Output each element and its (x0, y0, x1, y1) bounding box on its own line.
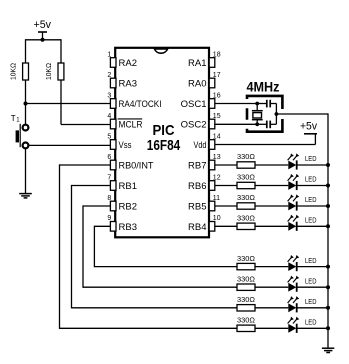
svg-text:330Ω: 330Ω (237, 193, 255, 202)
wire RB3 route to resistor R7 (94, 266, 237, 268)
svg-text:RA1: RA1 (188, 58, 206, 69)
wire node A to pin 3 RA4/TOCKI (26, 103, 111, 105)
junction node +5V rail (41, 38, 45, 42)
wire capacitor common (275, 104, 277, 125)
power +5V supply (right) (300, 121, 317, 145)
wire pin 9 RB3 route (left) (94, 225, 110, 227)
IC U1 PIC16F84 body (115, 48, 209, 238)
resistor R2 10K (pull-up to MCLR) (44, 63, 64, 80)
wire pin 6 RB0 route (left) (60, 164, 111, 166)
switch T1 push button (11, 114, 29, 148)
wire resistor R8 to LED D6 (255, 286, 288, 288)
wire resistor R5 to LED D3 (255, 205, 288, 207)
wire LED D2 cathode to ground bus (298, 185, 329, 187)
wire LED D3 cathode to ground bus (298, 205, 329, 207)
svg-text:17: 17 (213, 72, 221, 79)
svg-text:2: 2 (107, 72, 111, 79)
svg-text:12: 12 (213, 174, 221, 181)
svg-text:9: 9 (107, 215, 111, 222)
svg-text:OSC1: OSC1 (181, 99, 207, 110)
LED D5 (288, 255, 317, 271)
svg-text:LED: LED (305, 278, 317, 285)
svg-text:LED: LED (305, 218, 317, 225)
svg-text:LED: LED (305, 258, 317, 265)
pin 7 RB1 (107, 174, 137, 192)
wire R2 to pin 4 MCLR (vertical) (60, 80, 62, 125)
crystal module case (247, 96, 282, 132)
svg-text:1: 1 (16, 118, 20, 124)
wire pin 11 RB5 to resistor R5 (215, 205, 237, 207)
svg-text:RB4: RB4 (188, 222, 206, 233)
svg-text:LED: LED (305, 156, 317, 163)
pin 17 RA0 (188, 72, 221, 90)
svg-text:LED: LED (305, 177, 317, 184)
resistor R4 330 ohm (237, 173, 255, 189)
capacitor C1 (OSC1 side) (257, 100, 276, 108)
resistor R3 330 ohm (237, 152, 255, 168)
svg-text:4MHz: 4MHz (247, 80, 280, 95)
pin 5 Vss (107, 133, 132, 150)
svg-text:15: 15 (213, 113, 221, 120)
svg-text:330Ω: 330Ω (237, 295, 255, 304)
svg-text:+5v: +5v (300, 121, 317, 133)
svg-text:RA0: RA0 (188, 79, 206, 90)
resistor R8 330 ohm (237, 274, 255, 290)
wire ground bus (right vertical) (327, 113, 329, 348)
capacitor C2 (OSC2 side) (257, 121, 276, 129)
svg-text:RB1: RB1 (119, 181, 137, 192)
svg-text:11: 11 (213, 195, 220, 202)
resistor R6 330 ohm (237, 214, 255, 230)
node ground bus junction row 7 (326, 306, 330, 310)
node ground bus junction row 6 (326, 285, 330, 289)
wire resistor R6 to LED D4 (255, 225, 288, 227)
node ground bus junction row 4 (326, 224, 330, 228)
wire +5V to R2 (60, 39, 62, 63)
pin 12 RB6 (188, 174, 221, 192)
wire +5V to pin 14 Vdd (215, 144, 316, 146)
pin 1 RA2 (107, 51, 137, 69)
svg-text:RB3: RB3 (119, 222, 137, 233)
svg-text:MCLR: MCLR (119, 120, 143, 131)
svg-text:7: 7 (107, 174, 111, 181)
svg-text:10KΩ: 10KΩ (44, 63, 53, 80)
wire pin 15 OSC2 to crystal (215, 123, 257, 125)
pin 8 RB2 (107, 195, 137, 213)
svg-text:+5v: +5v (34, 19, 52, 31)
svg-text:LED: LED (305, 320, 317, 327)
wire RB2 route (down) (82, 205, 84, 287)
svg-text:LED: LED (305, 197, 317, 204)
svg-text:330Ω: 330Ω (237, 316, 255, 325)
wire R2 to pin 4 MCLR (horizontal) (61, 124, 110, 126)
ground (left) (19, 194, 32, 198)
resistor R10 330 ohm (237, 316, 255, 332)
svg-text:330Ω: 330Ω (237, 274, 255, 283)
pin 13 RB7 (188, 154, 221, 172)
svg-text:RB5: RB5 (188, 202, 206, 213)
crystal XTAL element (252, 104, 263, 125)
node ground bus junction row 8 (326, 326, 330, 330)
crystal module X1 4MHz label (247, 80, 280, 95)
pin 14 Vdd (194, 133, 221, 150)
node OSC2 junction (255, 122, 259, 126)
node ground bus junction row 3 (326, 204, 330, 208)
LED D4 (288, 215, 317, 231)
pin 2 RA3 (107, 72, 137, 90)
LED D3 (288, 194, 317, 210)
wire RB1 route (down) (71, 185, 73, 309)
wire LED D4 cathode to ground bus (298, 225, 329, 227)
svg-text:T: T (11, 114, 16, 123)
pin 9 RB3 (107, 215, 137, 233)
svg-text:330Ω: 330Ω (237, 152, 255, 161)
svg-text:RB6: RB6 (188, 181, 206, 192)
node capacitor common junction (275, 112, 279, 116)
svg-text:RA2: RA2 (119, 58, 137, 69)
svg-text:14: 14 (213, 133, 221, 140)
wire pin 7 RB1 route (left) (72, 185, 111, 187)
svg-text:10KΩ: 10KΩ (9, 63, 18, 80)
wire resistor R3 to LED D1 (255, 164, 288, 166)
node A junction (RA4 / switch) (24, 102, 28, 106)
svg-text:LED: LED (305, 299, 317, 306)
wire pin 10 RB4 to resistor R6 (215, 225, 237, 227)
LED D8 (288, 317, 317, 333)
svg-text:4: 4 (107, 113, 111, 120)
svg-text:1: 1 (107, 51, 111, 58)
wire switch T1 to pin 5 Vss (29, 144, 111, 146)
power +5V supply (top left) (34, 19, 52, 40)
svg-text:13: 13 (213, 154, 221, 161)
wire R1 to node A (25, 80, 27, 104)
pin 4 MCLR (107, 113, 142, 131)
pin 3 RA4/TOCKI (107, 92, 161, 110)
node ground bus junction row 2 (326, 184, 330, 188)
wire +5V to R1 (25, 39, 27, 63)
wire LED D8 cathode to ground bus (298, 327, 329, 329)
wire pin 12 RB6 to resistor R4 (215, 185, 237, 187)
svg-text:330Ω: 330Ω (237, 214, 255, 223)
wire RB1 route to resistor R9 (72, 307, 238, 309)
pin 6 RB0/INT (107, 154, 153, 172)
svg-text:RA3: RA3 (119, 79, 137, 90)
resistor R5 330 ohm (237, 193, 255, 209)
svg-text:Vss: Vss (119, 140, 132, 150)
svg-text:8: 8 (107, 195, 111, 202)
wire switch T1 to ground (25, 148, 27, 193)
wire LED D7 cathode to ground bus (298, 307, 329, 309)
svg-text:5: 5 (107, 133, 111, 140)
node ground bus junction row 5 (326, 265, 330, 269)
wire pin 16 OSC1 to crystal (215, 103, 257, 105)
wire resistor R9 to LED D7 (255, 307, 288, 309)
wire RB0 route to resistor R10 (60, 327, 238, 329)
wire node A to switch T1 (25, 104, 27, 125)
svg-text:6: 6 (107, 154, 111, 161)
node ground bus junction row 1 (326, 163, 330, 167)
svg-text:18: 18 (213, 51, 221, 58)
wire crystal case to ground bus (276, 113, 328, 115)
wire resistor R4 to LED D2 (255, 185, 288, 187)
svg-text:RB2: RB2 (119, 202, 137, 213)
svg-text:330Ω: 330Ω (237, 254, 255, 263)
svg-text:10: 10 (213, 215, 221, 222)
LED D7 (288, 296, 317, 312)
pin 10 RB4 (188, 215, 221, 233)
svg-text:RB0/INT: RB0/INT (119, 161, 154, 172)
svg-text:OSC2: OSC2 (181, 120, 207, 131)
svg-text:16: 16 (213, 92, 221, 99)
node OSC1 junction (255, 102, 259, 106)
ground (right) (322, 348, 334, 352)
svg-text:16F84: 16F84 (147, 137, 181, 154)
wire LED D5 cathode to ground bus (298, 266, 329, 268)
LED D1 (288, 153, 317, 169)
LED D6 (288, 276, 317, 292)
pin 11 RB5 (188, 195, 220, 213)
svg-text:330Ω: 330Ω (237, 173, 255, 182)
pin 18 RA1 (188, 51, 221, 69)
wire LED D6 cathode to ground bus (298, 286, 329, 288)
LED D2 (288, 174, 317, 190)
wire RB2 route to resistor R8 (83, 286, 237, 288)
resistor R9 330 ohm (237, 295, 255, 311)
svg-text:RB7: RB7 (188, 161, 206, 172)
svg-text:RA4/TOCKI: RA4/TOCKI (119, 99, 162, 110)
svg-text:Vdd: Vdd (194, 140, 207, 150)
resistor R1 10K (pull-up to RA4) (9, 63, 29, 80)
wire pin 8 RB2 route (left) (83, 205, 110, 207)
wire RB0 route (down) (59, 164, 61, 329)
wire resistor R7 to LED D5 (255, 266, 288, 268)
wire resistor R10 to LED D8 (255, 327, 288, 329)
wire +5V rail (26, 39, 62, 41)
resistor R7 330 ohm (237, 254, 255, 270)
svg-text:3: 3 (107, 92, 111, 99)
wire RB3 route (down) (93, 226, 95, 268)
wire pin 13 RB7 to resistor R3 (215, 164, 237, 166)
wire LED D1 cathode to ground bus (298, 164, 329, 166)
pin 15 OSC2 (181, 113, 221, 131)
pin 16 OSC1 (181, 92, 221, 110)
